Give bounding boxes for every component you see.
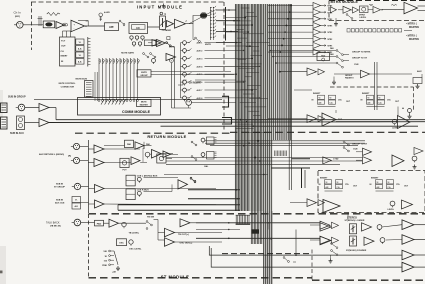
svg-text:• MTRX (: • MTRX ( [406, 22, 417, 26]
bus junction ticks [236, 8, 270, 133]
wire out1 [382, 225, 402, 240]
label RETURN MODULE [147, 134, 186, 139]
label aux return L [39, 153, 64, 156]
return out bold 4 [118, 205, 240, 211]
switch row 3 [275, 62, 343, 68]
capacitor C1 [38, 16, 43, 26]
phase switch [119, 20, 125, 26]
op-amp U29 [356, 157, 372, 164]
label group to mtrx [352, 52, 371, 54]
eq box A2 [129, 23, 148, 34]
note line 2 [409, 26, 419, 29]
op-amp U12 [131, 157, 140, 165]
label SUB IN ST GROUP [54, 183, 65, 188]
op-amp pair tb [290, 199, 325, 207]
op-amp U15 tb out [180, 219, 196, 227]
op-amp U10 [135, 142, 151, 150]
pan pot PAN [200, 12, 210, 18]
mute bus lines [98, 58, 139, 102]
svg-text:Ch In: Ch In [14, 11, 22, 15]
wire tb out mid [175, 229, 241, 233]
edge connector 1 [1, 103, 8, 113]
op-amp U21 [338, 6, 351, 13]
caption 2MB MTRX module [347, 29, 412, 32]
mute group box [137, 70, 151, 77]
op-amp U25 [361, 70, 370, 78]
phase marks [62, 23, 67, 27]
ground input fader [160, 4, 167, 17]
assign switch bank [210, 6, 216, 40]
return out bold 3 [118, 204, 240, 206]
resistor R1 feedback [78, 21, 88, 27]
assign bold collector [225, 7, 227, 41]
module box MTRX [329, 1, 425, 21]
svg-text:AUX 7: AUX 7 [197, 89, 204, 92]
svg-text:LEVEL: LEVEL [388, 209, 395, 211]
svg-text:(MIC): (MIC) [15, 16, 20, 18]
hatch block [275, 151, 287, 157]
osc freq switch [102, 250, 120, 273]
wire mid long [161, 125, 419, 127]
svg-text:TCT: TCT [61, 41, 66, 43]
op-amp U36 [320, 236, 331, 245]
svg-text:TALK BACK: TALK BACK [46, 221, 60, 224]
op-amp U30 big [392, 155, 404, 167]
switch TB row [190, 177, 196, 182]
svg-text:AUX 5: AUX 5 [197, 73, 204, 76]
label SUB IN GROUP [8, 96, 26, 99]
wires insert row1 [294, 62, 398, 122]
wire cross A [205, 140, 365, 142]
wire group fader [334, 73, 412, 75]
phantom resistor R0 [47, 13, 60, 16]
op-amp U2 big [71, 20, 85, 32]
connector aux return R [68, 156, 80, 164]
label INPUT MODULE [137, 5, 183, 10]
connector aux return L [71, 143, 80, 149]
svg-text:-: - [74, 27, 75, 30]
op-amp U27 big [392, 116, 410, 130]
label group to st [352, 58, 368, 60]
svg-text:MUTE: MUTE [205, 44, 212, 46]
svg-text:GROUP TO MTRX: GROUP TO MTRX [352, 52, 371, 54]
filter box A1 [105, 23, 119, 31]
op-amp U13 [178, 178, 197, 189]
op-amp pair cue L [279, 68, 324, 75]
dashed st right boundary [222, 253, 312, 255]
svg-text:ST(MONO) L FADER: ST(MONO) L FADER [345, 219, 365, 222]
fad box B1 [125, 140, 134, 147]
svg-text:PINK: PINK [102, 265, 107, 267]
svg-text:MTRX MODULE: MTRX MODULE [331, 0, 359, 4]
label SUB IN AUX [10, 132, 24, 135]
svg-text:OUT: OUT [61, 46, 66, 48]
op-amp U7 [25, 119, 50, 127]
op-amp U34 [320, 223, 331, 231]
svg-text:INSERT: INSERT [61, 56, 69, 58]
op-amps U11 [152, 150, 171, 159]
svg-text:ST GROUP: ST GROUP [54, 187, 65, 189]
connector sub in group [16, 104, 25, 111]
connector circle TB [172, 100, 192, 108]
fader FL [350, 224, 357, 234]
svg-text:AUX 3: AUX 3 [197, 57, 204, 60]
svg-text:⊕ 48V: ⊕ 48V [104, 11, 110, 14]
sum circle [170, 59, 174, 63]
riser right [347, 213, 349, 220]
switch SW2 [166, 42, 174, 47]
op-amp U32 big [323, 200, 340, 213]
svg-text:MUTE: MUTE [141, 102, 147, 104]
return out bold 2 [188, 198, 240, 200]
ground bottom [329, 256, 333, 264]
label group fader [345, 75, 354, 80]
mute control connector [59, 81, 93, 98]
wires return row1 [144, 146, 173, 159]
comm slashes [101, 100, 126, 105]
ground pair amps [332, 77, 336, 85]
connector Ch In [14, 11, 44, 29]
return wires extra [104, 142, 178, 163]
svg-text:INSERT: INSERT [362, 93, 370, 95]
op-amp U37 [364, 237, 374, 245]
label aux right [417, 70, 422, 73]
pot out R [380, 238, 385, 244]
wires down pair [172, 47, 175, 109]
pot stereo level [388, 201, 395, 211]
switch row 1 [269, 47, 349, 56]
label ST MODULE [161, 274, 190, 279]
balpan cluster 2 [191, 152, 216, 161]
svg-text:TB SW: TB SW [147, 216, 155, 218]
output amps x4 [402, 220, 425, 272]
insert jacks VI/AE [76, 39, 84, 64]
insert tie lines [88, 37, 91, 67]
wire st outs right B [267, 223, 269, 230]
svg-text:MASTER: MASTER [140, 104, 149, 107]
st out wires right [209, 246, 402, 262]
wire cross E [166, 160, 362, 162]
svg-text:MGRTZE: MGRTZE [409, 38, 419, 41]
insert dashed box group [330, 87, 414, 110]
label cue row [354, 64, 359, 66]
label TB SW [147, 216, 155, 218]
op-amp U8 [80, 145, 104, 153]
wire st outs right C [270, 238, 272, 241]
svg-text:SUB IN: SUB IN [56, 199, 64, 201]
wire diagonal to bus [189, 11, 214, 24]
switch row 2 [272, 53, 349, 62]
return left edge [88, 140, 90, 213]
svg-text:RETURN MODULE: RETURN MODULE [147, 134, 186, 139]
svg-text:INSERT: INSERT [313, 93, 321, 95]
pot mtrx level [359, 6, 368, 19]
connector talk back [72, 219, 81, 226]
label SUB IN AUX CUE [55, 199, 65, 204]
label CH INSERT [178, 80, 202, 85]
wire hatch row [271, 159, 310, 168]
insert dashed box stereo [318, 171, 425, 213]
comm module box [78, 98, 161, 116]
wire cross D [166, 157, 362, 159]
svg-text:+1: +1 [185, 21, 187, 23]
op-amp U26 big [322, 113, 343, 126]
svg-text:AUX CUE: AUX CUE [55, 202, 65, 205]
pot st right [412, 156, 417, 169]
svg-text:GROUP TO ST: GROUP TO ST [352, 143, 368, 145]
svg-text:FAD: FAD [330, 53, 334, 56]
bracket bold A [222, 96, 229, 107]
module separator dashed [89, 213, 425, 215]
wire cross B [205, 142, 365, 144]
svg-text:TB LEVEL: TB LEVEL [129, 232, 140, 234]
svg-text:LEVEL: LEVEL [360, 17, 367, 19]
pad circle [99, 13, 103, 21]
jacks sub in aux cue [72, 197, 81, 210]
label MTRX MODULE [331, 0, 359, 4]
svg-text:CH: CH [61, 51, 65, 53]
svg-text:INPUT MODULE: INPUT MODULE [137, 5, 183, 10]
bus bundle [235, 4, 292, 284]
label MUTE BUS [76, 78, 88, 80]
wires cue outs [144, 178, 179, 192]
svg-text:ST MODULE: ST MODULE [161, 274, 190, 279]
svg-text:LEVEL: LEVEL [392, 127, 399, 129]
svg-text:OSC OUT(+): OSC OUT(+) [180, 243, 193, 245]
bus blob [252, 230, 259, 234]
op-amp U14 [104, 219, 119, 227]
pot out L [377, 225, 382, 231]
svg-text:AUX 1: AUX 1 [197, 42, 204, 45]
svg-text:TB OUT(+): TB OUT(+) [178, 234, 189, 236]
op-amp U35 [362, 223, 372, 231]
label ch fader [162, 29, 172, 32]
svg-text:AUX: AUX [417, 70, 422, 73]
label cue 2 [353, 149, 358, 151]
pot P2 [152, 59, 156, 65]
svg-text:VI.: VI. [79, 42, 82, 44]
op-amp U16 [165, 228, 190, 237]
module box INPUT MODULE [31, 2, 224, 131]
aux feed vertical [181, 43, 183, 98]
insert cluster G1 [312, 93, 351, 106]
op-amp U40 [157, 40, 166, 47]
op-amp U19 [81, 200, 105, 208]
svg-text:A.E.: A.E. [78, 60, 82, 63]
svg-text:COMM MODULE: COMM MODULE [122, 110, 151, 114]
op-amp pair st L [310, 221, 339, 229]
label TALK BACK [46, 221, 61, 227]
wire aux return outs [104, 149, 140, 163]
cue r boxes [126, 189, 141, 200]
wire insert right [192, 80, 237, 103]
note line 1 [406, 22, 417, 26]
svg-text:10K: 10K [103, 251, 107, 253]
transformer T1 [43, 21, 55, 28]
svg-text:SUB IN GROUP: SUB IN GROUP [8, 96, 26, 99]
note line 3 [406, 34, 417, 38]
svg-text:AUX 4: AUX 4 [197, 65, 204, 68]
tb switches [119, 220, 159, 241]
module boundary dashes L [75, 132, 230, 134]
pot U27b [402, 108, 411, 119]
aux send rows [183, 41, 261, 102]
op-amp U17 [165, 238, 193, 247]
svg-text:MUTE CONTROL: MUTE CONTROL [59, 83, 76, 85]
svg-text:PAD: PAD [97, 222, 102, 225]
label group to st 2 [352, 143, 368, 145]
st module inner wires [158, 233, 165, 241]
op-amp U23 [368, 4, 383, 13]
mute bus left lines [95, 72, 97, 101]
svg-text:MUTE SAFE: MUTE SAFE [121, 52, 134, 55]
node sub group line [34, 98, 222, 100]
wire osc right [175, 238, 321, 243]
switch row mid [343, 141, 349, 152]
pot tb level [122, 222, 140, 234]
svg-text:GROUP TO ST: GROUP TO ST [352, 58, 368, 60]
svg-text:CUE: CUE [354, 64, 359, 66]
op-amp U5 [175, 19, 188, 28]
svg-text:• MTRX (: • MTRX ( [406, 34, 417, 38]
edge connector 2 [1, 117, 8, 129]
bus pin block [236, 215, 251, 224]
wires mute group [151, 72, 234, 75]
fad box right [317, 53, 330, 62]
svg-text:HPF: HPF [109, 26, 114, 29]
bracket bold B [222, 118, 232, 125]
switch mtrx [346, 14, 353, 20]
svg-text:FAD: FAD [321, 54, 326, 57]
fader F1 [160, 16, 166, 29]
osc box [117, 239, 127, 246]
wire cue feed [164, 174, 268, 176]
pot P1 [145, 152, 150, 158]
assign out wires [216, 9, 242, 42]
svg-text:GROUP: GROUP [140, 75, 148, 77]
label st fader R [346, 249, 367, 252]
svg-text:(TB MIC IN): (TB MIC IN) [50, 225, 61, 227]
svg-text:EQ: EQ [136, 28, 140, 30]
op-amp pair cue R [268, 115, 325, 123]
mute switch SW1 [193, 24, 212, 46]
label st fader L [345, 219, 365, 222]
op-amp U4b [148, 37, 170, 47]
op-amp U4 [167, 21, 174, 28]
pot box B2 [120, 158, 129, 171]
meta box B3 [157, 154, 166, 163]
ground mtrx [334, 18, 338, 26]
eq pots [130, 36, 144, 47]
wire sub group out [49, 108, 56, 120]
wire sub group long [56, 119, 425, 121]
svg-text:MUTE: MUTE [141, 72, 147, 74]
cue l boxes [126, 175, 141, 186]
svg-text:1 FAD: 1 FAD [333, 158, 339, 161]
small tri right edge [414, 148, 423, 155]
mono switches [331, 243, 338, 256]
svg-text:SUB IN AUX: SUB IN AUX [10, 132, 24, 135]
bus dots mid [240, 119, 265, 176]
op-amp U1 [56, 22, 64, 29]
wire cross F [166, 163, 340, 165]
connector sub in st [72, 183, 81, 189]
fan rows to bus [226, 17, 253, 47]
svg-text:INSERT: INSERT [371, 178, 379, 180]
insert cluster S2 [370, 178, 409, 191]
op-amp U31 [323, 157, 339, 164]
wire sub aux out [49, 121, 425, 124]
insert cluster S1 [319, 178, 358, 191]
svg-text:VI.: VI. [75, 200, 78, 202]
balpan cluster 1 [191, 137, 216, 168]
connector sub in aux [17, 116, 25, 130]
mute master box [137, 100, 152, 107]
box B5 [144, 40, 156, 46]
svg-text:STEREO: STEREO [347, 216, 357, 219]
wire sub in aux out [104, 203, 216, 206]
pad box [81, 220, 104, 226]
comp right edge [413, 74, 422, 89]
label stereo [347, 216, 357, 219]
svg-text:(R): (R) [68, 156, 71, 158]
mute safe switches [121, 52, 156, 58]
wires into insert [63, 31, 71, 37]
switch 48V [104, 11, 110, 14]
wire after fader [166, 16, 201, 24]
st module frame [89, 214, 425, 280]
wire cross C [210, 145, 358, 147]
svg-text:OSC LEVEL: OSC LEVEL [129, 248, 142, 250]
wire mtrx chain [382, 4, 404, 10]
svg-text:AUX 2: AUX 2 [197, 50, 204, 53]
pot osc level [129, 240, 142, 251]
label mute2 [166, 42, 175, 49]
svg-text:CONNECTOR: CONNECTOR [61, 86, 75, 88]
op-amp U28 [356, 148, 372, 155]
label CUE L BUS [137, 175, 158, 177]
ch insert box [60, 37, 76, 66]
note line 4 [409, 38, 419, 41]
wire sub in st out [104, 188, 216, 190]
return out bold 1 [188, 189, 240, 191]
op-amp U24 big [404, 2, 425, 14]
mtrx tap amps [268, 3, 333, 56]
bold corner right [302, 168, 306, 189]
op-amp U33 [402, 200, 413, 209]
svg-text:CUE L (MONO) BUS: CUE L (MONO) BUS [137, 175, 158, 177]
svg-text:ST(MONO) R FADER: ST(MONO) R FADER [346, 249, 367, 252]
svg-text:FAD: FAD [127, 143, 132, 146]
insert cluster G2 [361, 93, 400, 106]
op-amp U18 [81, 185, 104, 193]
svg-text:FADER 8: FADER 8 [345, 76, 354, 79]
svg-text:CH INSERT: CH INSERT [189, 82, 202, 84]
svg-text:MTRX: MTRX [359, 14, 366, 16]
svg-text:OSC: OSC [119, 243, 124, 245]
op-amp U41 [166, 54, 176, 61]
svg-text:CH FADER: CH FADER [162, 29, 172, 32]
op-amp pair st R [310, 236, 339, 244]
svg-text:A.E.: A.E. [78, 47, 82, 50]
op-amp U6 [25, 104, 49, 112]
fader FR [350, 236, 357, 246]
label CUE R BUS [137, 190, 150, 192]
module boundary dashes R [230, 131, 425, 133]
svg-text:MUTE BUS: MUTE BUS [76, 78, 88, 80]
svg-text:VI.: VI. [79, 55, 82, 57]
svg-text:SUB IN: SUB IN [56, 183, 64, 185]
